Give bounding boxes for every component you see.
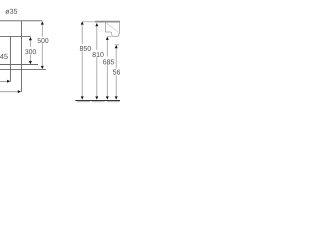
right view underside profile step bbox=[105, 22, 110, 32]
label 850 bbox=[80, 46, 91, 51]
dimension 500 up arrow bbox=[41, 21, 44, 24]
horizontal dimension arrow to x=21.1 bbox=[0, 91, 18, 93]
hatch line in section bbox=[106, 23, 118, 32]
label ø35 tap hole diameter bbox=[5, 9, 17, 14]
left view right edge / extension line bbox=[20, 21, 22, 92]
dimension 850 down arrow bbox=[81, 96, 84, 99]
dimension 685 down arrow bbox=[106, 96, 109, 99]
dimension 300 up arrow bbox=[29, 37, 32, 40]
dimension 685 stem bbox=[106, 40, 108, 56]
dimension 300 down arrow bbox=[29, 61, 32, 64]
right view right edge bbox=[119, 22, 121, 34]
left view shelf line bbox=[0, 36, 31, 38]
dimension 500 stem bbox=[41, 25, 43, 37]
dimension 500 down arrow bbox=[41, 66, 44, 69]
floor line bbox=[75, 100, 120, 102]
left view bottom line 1 bbox=[0, 64, 38, 66]
label 500 bbox=[38, 38, 49, 43]
left view bottom line 2 bbox=[0, 68, 46, 70]
dimension 850 up arrow bbox=[81, 21, 84, 24]
extension line from 850 arrow to worktop bbox=[82, 21, 95, 23]
extension tick for 560 bbox=[115, 44, 119, 46]
dimension 685 up arrow bbox=[106, 37, 109, 40]
dimension 850 stem bbox=[81, 25, 83, 44]
dimension 810 down arrow bbox=[95, 96, 98, 99]
left view top edge bbox=[0, 20, 43, 22]
label 810 bbox=[93, 52, 104, 57]
dimension 560 up arrow bbox=[115, 45, 118, 48]
floor hatch dashes bbox=[77, 101, 120, 103]
label 45 (cut off at left edge) bbox=[0, 54, 8, 59]
left view inner vertical edge bbox=[9, 37, 11, 82]
dimension 560 down arrow bbox=[115, 96, 118, 99]
horizontal dimension arrow to x=10.4 bbox=[0, 80, 8, 82]
label 560 (cut off at right edge) bbox=[113, 70, 124, 75]
dimension 300 stem bbox=[29, 40, 31, 47]
dimension 560 stem bbox=[115, 48, 117, 68]
right view worktop thick edge bbox=[95, 21, 120, 23]
label 685 bbox=[103, 59, 114, 64]
extension line for 685 bbox=[107, 35, 112, 37]
siphon cup outline bbox=[111, 32, 120, 36]
dimension 810 stem bbox=[96, 26, 98, 50]
label 300 bbox=[25, 49, 36, 54]
dimension 810 up arrow bbox=[95, 23, 98, 26]
